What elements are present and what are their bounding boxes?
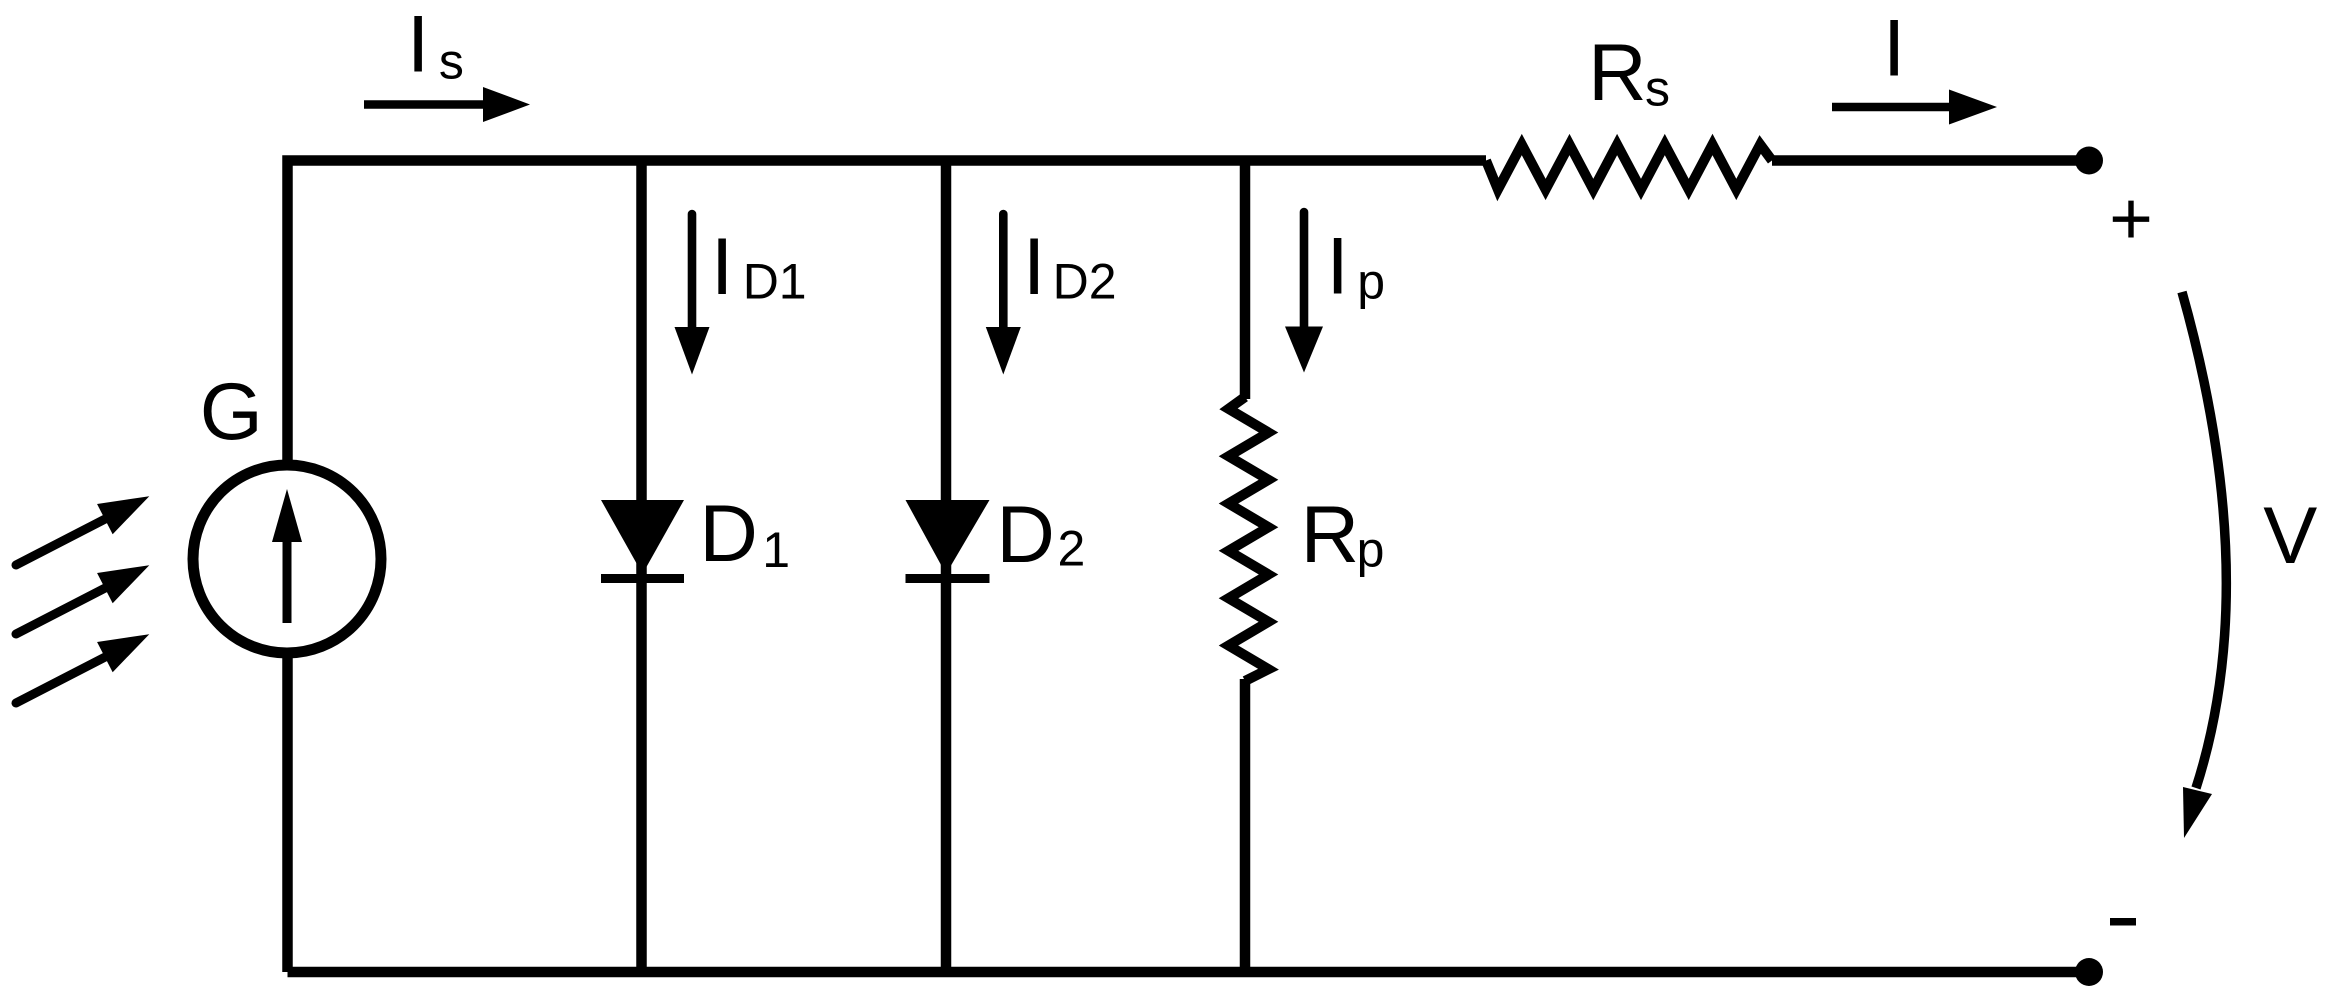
arrow V curve	[2182, 292, 2226, 838]
arrow I	[1832, 90, 1997, 125]
wire D1 branch	[636, 161, 647, 973]
svg-text:R: R	[1301, 490, 1360, 580]
svg-text:I: I	[711, 222, 734, 312]
svg-text:s: s	[1645, 61, 1670, 117]
svg-text:I: I	[1326, 222, 1349, 312]
svg-text:1: 1	[762, 522, 790, 578]
current source G circle	[193, 465, 381, 653]
diode D1	[601, 500, 684, 579]
svg-text:p: p	[1357, 522, 1385, 578]
svg-text:D: D	[699, 489, 758, 579]
svg-text:D: D	[996, 490, 1055, 580]
label Rs	[1588, 28, 1670, 118]
label Rp	[1301, 490, 1385, 580]
light arrow 1	[8, 481, 157, 580]
label D2	[996, 490, 1085, 580]
svg-text:I: I	[407, 0, 430, 90]
svg-text:V: V	[2263, 491, 2317, 581]
light arrow 2	[8, 550, 157, 649]
label ID1	[711, 222, 807, 312]
label D1	[699, 489, 790, 579]
light arrow 3	[8, 619, 157, 718]
svg-text:I: I	[1023, 222, 1046, 312]
arrow ID2	[986, 214, 1021, 375]
svg-text:R: R	[1588, 28, 1647, 118]
wire top right to output	[1772, 155, 2089, 166]
svg-text:2: 2	[1058, 521, 1086, 577]
svg-text:D1: D1	[743, 254, 807, 310]
label ID2	[1023, 222, 1117, 312]
wire Rp branch lower	[1240, 679, 1251, 972]
node output plus terminal	[2075, 147, 2103, 175]
svg-text:D2: D2	[1053, 254, 1117, 310]
resistor Rs	[1486, 145, 1772, 190]
wire bottom rail	[288, 967, 2090, 978]
diode D2	[906, 500, 990, 579]
wire D2 branch	[941, 161, 952, 973]
label Is	[407, 0, 464, 90]
arrow Ip	[1285, 212, 1323, 373]
svg-text:+: +	[2109, 176, 2153, 260]
node output minus terminal	[2075, 958, 2103, 986]
arrow Is	[364, 87, 530, 122]
wire top rail	[288, 161, 1487, 464]
wire left lower segment	[282, 652, 293, 972]
wire Rp branch upper	[1240, 161, 1251, 400]
svg-text:p: p	[1357, 253, 1385, 309]
label Ip	[1326, 222, 1385, 312]
svg-text:s: s	[439, 34, 464, 90]
arrow ID1	[675, 214, 710, 375]
current source arrow	[272, 489, 302, 623]
resistor Rp	[1229, 397, 1269, 681]
svg-text:G: G	[200, 367, 263, 457]
label minus	[2110, 918, 2136, 926]
svg-text:I: I	[1883, 4, 1906, 94]
